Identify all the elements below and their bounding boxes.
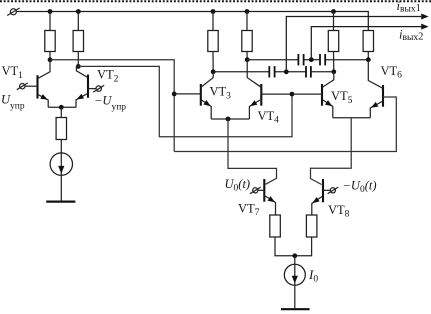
wire VT1 collector to VT3/VT6 bases [50, 60, 174, 152]
node common emitter left pair [59, 105, 64, 110]
wire emitter node to R7 [60, 107, 62, 117]
node common emitter mid pair [226, 117, 231, 122]
wire R9 to common node [295, 237, 312, 256]
svg-text:VT4: VT4 [258, 109, 280, 126]
terminal Uupr input [17, 83, 28, 90]
LABELS-LEFT [1, 64, 126, 112]
svg-text:VT2: VT2 [97, 68, 119, 85]
node common emitter VT7 VT8 [292, 253, 297, 258]
svg-text:iвых2: iвых2 [399, 27, 423, 43]
node rail junction 5 [331, 9, 336, 14]
node rail junction 1 [48, 9, 53, 14]
svg-text:VT5: VT5 [331, 89, 353, 106]
wire R6 to VT6 collector node [367, 52, 369, 60]
resistor R7 [56, 118, 66, 140]
transistor VT3 [174, 72, 213, 119]
node VT2 collector [76, 64, 81, 69]
wire VT3 VT4 common emitter [211, 118, 249, 120]
current source I left [50, 153, 72, 175]
svg-text:I0: I0 [308, 267, 318, 285]
arrow ivyx1 [421, 14, 428, 20]
node rail junction 3 [211, 9, 216, 14]
svg-text:VT8: VT8 [328, 203, 350, 220]
resistor R1 [45, 31, 55, 52]
resistor R8 [270, 215, 281, 237]
transistor VT2 [76, 66, 96, 107]
resistor R3 [208, 31, 218, 52]
svg-text:VT1: VT1 [2, 64, 24, 81]
wire rail to R4 [246, 12, 248, 31]
arrow ivyx2 [421, 24, 428, 30]
wire ivyx1 output [286, 17, 421, 72]
wire supply rail [17, 12, 369, 31]
transistor VT5 [292, 72, 334, 118]
terminal supply input [7, 8, 19, 16]
wire R8 to common node [275, 237, 295, 256]
wire ivyx2 output [311, 27, 421, 60]
wire rail to R5 [333, 12, 335, 31]
wire rail to R3 [212, 12, 214, 31]
wire R7 to current source [60, 140, 62, 154]
dotted frame edge top [0, 0, 431, 2]
wire current source to ground [60, 175, 62, 201]
capacitor C3 [213, 66, 274, 77]
wire VT5 VT6 common emitter [333, 117, 371, 119]
wire R4 to VT4 collector node [246, 52, 248, 60]
transistor VT8 [312, 179, 331, 215]
current source I0 [284, 256, 305, 285]
wire VT2 collector to VT4/VT5 bases [78, 66, 292, 136]
wire R1 to VT1 collector node [49, 52, 51, 60]
node VT4 VT5 base tie [290, 92, 295, 97]
node rail junction 4 [245, 9, 250, 14]
resistor R9 [306, 215, 317, 237]
wire rail to R1 [49, 12, 51, 31]
ground left [46, 201, 75, 203]
svg-text:−U0(t): −U0(t) [343, 179, 377, 196]
capacitor C1 [247, 54, 303, 65]
transistor VT6 [174, 60, 396, 152]
ground bottom [281, 308, 310, 310]
capacitor C2 [305, 54, 369, 65]
terminal U0(t) input [250, 187, 261, 194]
node C3 C4 midpoint [284, 69, 289, 74]
node VT3 collector [211, 69, 216, 74]
transistor VT7 [258, 179, 276, 215]
capacitor C4 [276, 66, 334, 77]
resistor R2 [73, 31, 83, 52]
resistor R5 [328, 31, 338, 52]
node VT5 collector [331, 69, 336, 74]
wire R5 to VT5 collector node [333, 52, 335, 72]
svg-text:VT7: VT7 [238, 201, 260, 218]
wire R2 to VT2 collector node [77, 52, 79, 67]
node VT6 collector [366, 57, 371, 62]
terminal -Uupr input [93, 85, 104, 92]
svg-text:U0(t): U0(t) [225, 177, 251, 194]
transistor VT4 [247, 60, 292, 119]
wire emitter node to VT7 collector [228, 119, 277, 184]
resistor R4 [242, 31, 252, 52]
svg-text:−Uупр: −Uупр [94, 93, 126, 112]
wire VT1 VT2 common emitter [48, 106, 76, 108]
svg-text:Uупр: Uупр [1, 93, 25, 112]
node VT1 collector [48, 57, 53, 62]
transistor VT1 [25, 60, 50, 108]
wire rail corner to R6 already; resistor R6 [363, 31, 373, 52]
node VT3 base tap [172, 92, 177, 97]
node rail junction 2 [76, 9, 81, 14]
wire rail to R2 [77, 12, 79, 31]
svg-text:VT3: VT3 [210, 85, 232, 102]
svg-text:VT6: VT6 [381, 64, 403, 81]
terminal -U0(t) input [328, 187, 339, 194]
node C1 C2 midpoint [309, 57, 314, 62]
node VT4 collector [245, 57, 250, 62]
wire R3 to VT3 collector node [212, 52, 214, 72]
wire emitter node to VT8 collector [311, 118, 352, 185]
wire I0 to ground [294, 285, 296, 309]
